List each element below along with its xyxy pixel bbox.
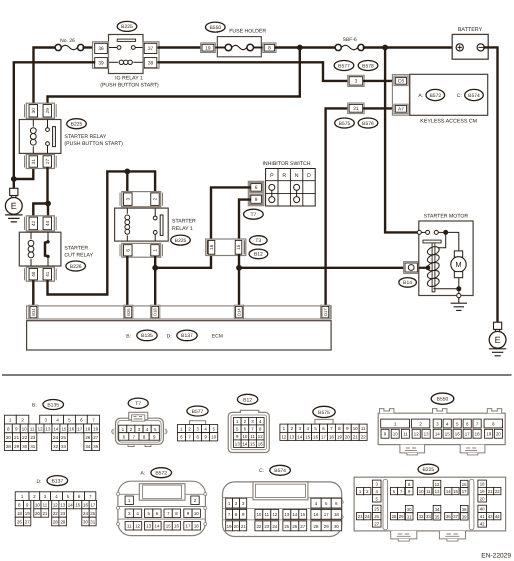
svg-text:B577: B577	[192, 409, 204, 415]
svg-text:33: 33	[61, 444, 66, 449]
wire fuse No.26 feed to starter relay pin 30	[34, 48, 56, 104]
svg-text:21: 21	[42, 511, 47, 516]
wire SBF-6 junction to starter relay pin 29	[48, 48, 300, 104]
svg-text:B225: B225	[121, 24, 133, 30]
svg-text:EN-22029: EN-22029	[481, 553, 511, 560]
inhibitor switch N contacts	[294, 184, 300, 202]
connector label B578	[358, 61, 378, 71]
pin 16	[208, 240, 215, 254]
relay U-IG1 IG RELAY 1 body	[109, 35, 144, 74]
svg-text:28: 28	[314, 524, 319, 529]
svg-text:13: 13	[284, 512, 289, 517]
svg-text:12: 12	[258, 434, 263, 439]
svg-text:10: 10	[22, 426, 27, 431]
starter cut relay bottom connector pins 40/41	[25, 267, 57, 281]
svg-text:19: 19	[205, 45, 211, 51]
svg-text:21: 21	[353, 434, 358, 439]
svg-text:41: 41	[45, 271, 50, 277]
svg-text:B12: B12	[254, 252, 263, 258]
pin C6 (keyless)	[394, 76, 408, 85]
svg-text:B14: B14	[403, 280, 412, 286]
svg-text:28: 28	[6, 444, 11, 449]
svg-text:30: 30	[31, 108, 36, 114]
IG relay left connector pins 36/39	[93, 42, 109, 68]
svg-text:29: 29	[45, 108, 50, 114]
svg-text:10: 10	[256, 512, 261, 517]
svg-text:27: 27	[25, 519, 30, 524]
junction ground wire / starter relay pin 31	[11, 176, 17, 182]
svg-text:T7: T7	[135, 401, 141, 407]
connector label B14	[399, 278, 417, 288]
wire keyless A7 to connector pin 21	[364, 107, 394, 109]
wire junction to ECM D14	[238, 268, 240, 306]
svg-text:6: 6	[125, 249, 130, 252]
fuse (fuse holder)	[225, 44, 253, 51]
svg-text:18: 18	[475, 432, 480, 437]
svg-text:11: 11	[250, 434, 255, 439]
svg-text:12: 12	[135, 524, 140, 529]
inhibitor switch table	[266, 169, 316, 207]
svg-text:STARTER RELAY: STARTER RELAY	[64, 134, 106, 140]
svg-text:40: 40	[31, 271, 36, 277]
starter relay 1 contact points	[153, 215, 163, 235]
connector label B225 (starter relay 1)	[171, 235, 191, 245]
wire junction to connector B14	[239, 267, 403, 269]
svg-text:8: 8	[268, 45, 271, 51]
svg-text:24: 24	[272, 524, 277, 529]
svg-text:B:: B:	[32, 402, 37, 408]
svg-text:38: 38	[148, 61, 154, 67]
svg-text:B550: B550	[209, 25, 221, 31]
svg-text:IG RELAY 1: IG RELAY 1	[115, 76, 143, 82]
wire junction to connector pin 16	[155, 256, 211, 268]
wire junction to cut relay pin 42	[33, 204, 48, 216]
starter relay contact points	[46, 127, 56, 147]
starter cut relay top connector pins 42/44	[25, 216, 57, 231]
connector B14	[404, 262, 419, 274]
svg-text:12: 12	[414, 432, 419, 437]
svg-text:35: 35	[93, 444, 98, 449]
wire cut relay pin 41 to starter relay 1 pin 2	[48, 171, 156, 294]
svg-text:20: 20	[6, 435, 11, 440]
svg-text:B572: B572	[429, 93, 441, 99]
pin 6 (T7)	[250, 182, 263, 192]
starter motor terminals	[417, 230, 445, 234]
starter motor solenoid coil	[426, 245, 440, 288]
svg-text:10: 10	[211, 435, 216, 440]
inhibitor connector shell pins 6/9	[248, 181, 263, 205]
svg-text:STARTER: STARTER	[64, 245, 88, 251]
junction pin15 / ECM D14 / starter motor	[236, 265, 242, 271]
svg-text:16: 16	[69, 426, 74, 431]
svg-text:27: 27	[93, 435, 98, 440]
svg-text:24: 24	[53, 435, 58, 440]
junction relay 1 coil feed	[124, 169, 130, 175]
svg-text:16: 16	[462, 482, 467, 487]
wire inhibitor pin 6 to connector pin 16	[211, 187, 250, 239]
svg-text:19: 19	[227, 524, 232, 529]
svg-text:13: 13	[46, 426, 51, 431]
svg-text:39: 39	[462, 514, 467, 519]
ECM pin B26	[124, 305, 133, 319]
svg-text:D:: D:	[37, 479, 42, 485]
connector label B12 (bottom)	[237, 394, 257, 404]
svg-text:B137: B137	[51, 479, 63, 485]
svg-text:22: 22	[256, 524, 261, 529]
connector B12 pin grid	[233, 418, 264, 448]
svg-text:40: 40	[480, 507, 485, 512]
svg-text:35: 35	[435, 514, 440, 519]
svg-text:27: 27	[300, 524, 305, 529]
svg-text:25: 25	[374, 507, 379, 512]
starter relay contact	[47, 120, 49, 128]
svg-text:10: 10	[393, 432, 398, 437]
connector label B550 (bottom)	[431, 393, 454, 404]
svg-text:E: E	[495, 335, 501, 345]
svg-text:16: 16	[258, 442, 263, 447]
svg-text:30: 30	[83, 519, 88, 524]
svg-text:15: 15	[166, 524, 171, 529]
starter relay 1 contact	[154, 208, 156, 216]
separator line	[2, 374, 512, 376]
svg-text:14: 14	[446, 489, 451, 494]
svg-text:12: 12	[53, 503, 58, 508]
IG relay right connector pins 37/38	[143, 42, 159, 68]
svg-text:28: 28	[53, 519, 58, 524]
svg-text:18: 18	[334, 512, 339, 517]
svg-text:20: 20	[35, 511, 40, 516]
svg-text:37: 37	[148, 46, 154, 52]
svg-text:BATTERY: BATTERY	[458, 27, 483, 33]
svg-text:2: 2	[153, 197, 158, 200]
svg-text:31: 31	[407, 514, 412, 519]
svg-text:21: 21	[488, 489, 493, 494]
svg-text:6: 6	[255, 185, 258, 191]
connector label T3	[249, 236, 267, 245]
connector B225 pin grid	[357, 480, 501, 527]
svg-text:B225: B225	[175, 238, 187, 244]
pin 9 (T7)	[250, 194, 263, 205]
connector label B225 (IG relay)	[117, 21, 137, 31]
svg-text:D14: D14	[236, 308, 241, 316]
keyless access CM connector strip C6/A7	[392, 75, 409, 116]
connector label B575	[335, 118, 355, 128]
svg-text:43: 43	[488, 514, 493, 519]
svg-text:25: 25	[90, 511, 95, 516]
svg-text:16: 16	[314, 512, 319, 517]
connector B137 pin grid	[15, 479, 96, 526]
starter relay bottom connector pins 31/27	[25, 155, 57, 169]
svg-text:B135: B135	[141, 333, 153, 339]
svg-text:36: 36	[98, 46, 104, 52]
connector label B12	[249, 249, 268, 259]
junction motor / solenoid ground	[456, 286, 461, 291]
svg-text:11: 11	[426, 489, 431, 494]
connector label B550	[206, 22, 226, 32]
svg-text:(PUSH BUTTON START): (PUSH BUTTON START)	[64, 141, 123, 147]
svg-text:CUT RELAY: CUT RELAY	[64, 253, 93, 259]
connector B225 body	[354, 477, 506, 541]
svg-text:B576: B576	[362, 121, 374, 127]
pin 15	[235, 240, 242, 254]
junction starter motor feed	[443, 230, 448, 235]
connector label B575 (bottom)	[313, 406, 335, 417]
svg-text:20: 20	[345, 434, 350, 439]
ECM box	[27, 321, 332, 350]
starter cut relay contact (closed)	[45, 232, 50, 266]
svg-text:B578: B578	[362, 63, 374, 69]
svg-text:18: 18	[17, 511, 22, 516]
svg-text:30: 30	[22, 444, 27, 449]
svg-text:RELAY 1: RELAY 1	[172, 226, 193, 232]
svg-text:34: 34	[85, 444, 90, 449]
svg-text:P: P	[270, 173, 274, 179]
junction relay1 pin1 / connector 16	[152, 265, 158, 271]
fuse holder B550 box	[217, 37, 261, 57]
starter cut relay coil	[28, 232, 34, 266]
connector B572 body	[117, 481, 207, 535]
starter relay 1 coil	[125, 208, 130, 241]
connector B550 body	[378, 409, 505, 455]
svg-text:15: 15	[61, 426, 66, 431]
wire IG relay pin 37 to fuse holder pin 19	[159, 46, 201, 48]
svg-text:15: 15	[445, 432, 450, 437]
starter motor box	[419, 221, 473, 296]
svg-text:23: 23	[358, 514, 363, 519]
svg-text:14: 14	[292, 512, 297, 517]
svg-text:10: 10	[194, 511, 199, 516]
svg-text:D18: D18	[153, 308, 158, 316]
fuse SBF-6	[335, 44, 364, 50]
ECM pin D14	[234, 305, 243, 319]
svg-text:17: 17	[462, 489, 467, 494]
svg-text:10: 10	[35, 503, 40, 508]
svg-text:26: 26	[85, 435, 90, 440]
svg-text:31: 31	[90, 519, 95, 524]
svg-text:21: 21	[241, 524, 246, 529]
svg-text:No. 26: No. 26	[60, 38, 75, 44]
connector B575 pin grid	[280, 424, 367, 440]
svg-text:42: 42	[480, 521, 485, 526]
svg-text:3: 3	[355, 79, 358, 85]
connector T3/B12 shell	[206, 239, 246, 256]
wire SBF-6 to battery +	[364, 46, 456, 48]
connector B574 body	[223, 482, 344, 537]
svg-text:21: 21	[353, 106, 359, 112]
wire connector pin 21 to ECM D17	[326, 108, 348, 306]
svg-text:29: 29	[14, 444, 19, 449]
svg-text:15: 15	[75, 503, 80, 508]
IG relay coil	[109, 60, 144, 64]
svg-text:34: 34	[435, 507, 440, 512]
svg-text:19: 19	[93, 426, 98, 431]
svg-text:14: 14	[68, 503, 73, 508]
svg-text:15: 15	[236, 244, 241, 250]
svg-text:N: N	[295, 173, 299, 179]
svg-text:D17: D17	[323, 308, 328, 316]
junction B14 wire / solenoid coil	[426, 265, 431, 270]
connector label B226	[66, 261, 86, 271]
wire IG relay pin 39 to ground E	[14, 62, 94, 188]
svg-text:19: 19	[337, 434, 342, 439]
svg-text:17: 17	[324, 512, 329, 517]
connector label B137 (bottom)	[47, 476, 68, 486]
connector B575 body	[315, 419, 333, 424]
svg-text:11: 11	[265, 512, 270, 517]
svg-text:18: 18	[85, 426, 90, 431]
svg-text:26: 26	[17, 519, 22, 524]
svg-text:STARTER MOTOR: STARTER MOTOR	[424, 214, 469, 220]
motor M	[451, 251, 466, 278]
svg-text:37: 37	[453, 514, 458, 519]
svg-text:15: 15	[250, 442, 255, 447]
svg-text:31: 31	[30, 444, 35, 449]
svg-text:B225: B225	[422, 467, 434, 473]
fuse holder internal lead	[215, 47, 225, 49]
wire cut relay pin 40 to ECM B34	[32, 281, 34, 306]
ECM pin D18	[151, 305, 160, 319]
svg-text:30: 30	[334, 524, 339, 529]
svg-text:C:: C:	[259, 468, 264, 474]
svg-text:A:: A:	[141, 471, 146, 477]
svg-text:11: 11	[361, 426, 366, 431]
svg-text:25: 25	[61, 435, 66, 440]
svg-text:16: 16	[209, 244, 214, 250]
pin 8 (B550)	[263, 43, 276, 53]
wire fuse No.26 to IG relay pin 36	[84, 46, 94, 48]
svg-text:14: 14	[53, 426, 58, 431]
svg-text:KEYLESS ACCESS CM: KEYLESS ACCESS CM	[420, 118, 477, 124]
pin 21 (B575/B576)	[348, 103, 364, 114]
wire pin 15 down to junction	[238, 256, 240, 268]
svg-text:B575: B575	[318, 410, 330, 416]
connector B577 pin grid	[177, 425, 217, 441]
inhibitor switch P contacts	[269, 184, 275, 202]
relay starter relay 1 body	[115, 208, 169, 241]
svg-text:B137: B137	[181, 333, 193, 339]
ECM connector rail	[27, 306, 332, 319]
svg-text:29: 29	[60, 519, 65, 524]
svg-text:22: 22	[22, 435, 27, 440]
svg-text:12: 12	[435, 482, 440, 487]
svg-text:21: 21	[14, 435, 19, 440]
connector B12 body	[228, 410, 269, 452]
wire starter relay pin 27 down	[46, 169, 48, 204]
svg-text:B550: B550	[437, 397, 449, 403]
svg-text:B574: B574	[468, 93, 480, 99]
svg-text:33: 33	[426, 514, 431, 519]
wire battery - to ground E	[484, 47, 497, 322]
wire SBF-6 junction to starter motor terminal	[385, 48, 417, 233]
svg-text:16: 16	[83, 503, 88, 508]
connector B135 pin grid	[4, 402, 99, 450]
svg-text:A:: A:	[418, 93, 423, 99]
svg-text:32: 32	[53, 444, 58, 449]
svg-text:19: 19	[486, 432, 491, 437]
connector label T7	[244, 209, 264, 219]
connector B574 pin grid	[226, 498, 342, 531]
svg-text:R: R	[282, 173, 286, 179]
junction main feed / starter motor branch	[382, 45, 388, 51]
svg-text:A7: A7	[398, 107, 404, 113]
ECM pin D17	[321, 305, 330, 319]
starter motor solenoid plunger	[423, 240, 441, 292]
svg-text:12: 12	[272, 512, 277, 517]
connector label B577	[334, 61, 354, 71]
junction main feed / IG relay branch	[297, 45, 303, 51]
svg-text:B:: B:	[126, 333, 131, 339]
svg-text:10: 10	[353, 426, 358, 431]
connector label B225 (starter relay)	[67, 119, 87, 129]
svg-text:E: E	[11, 201, 17, 211]
svg-text:B12: B12	[243, 397, 252, 403]
wire starter relay 1 pin 6 to ECM B26	[126, 257, 128, 306]
wire IG relay pin 38 to connector pin 3	[159, 62, 348, 81]
connector label T7 (bottom)	[128, 398, 148, 408]
svg-text:30: 30	[407, 507, 412, 512]
svg-text:17: 17	[77, 426, 82, 431]
svg-text:B226: B226	[70, 264, 82, 270]
svg-text:44: 44	[45, 220, 50, 226]
fuse No. 26	[55, 44, 84, 50]
svg-text:15: 15	[305, 434, 310, 439]
pin A7 (keyless)	[394, 104, 408, 113]
svg-text:STARTER: STARTER	[172, 219, 196, 225]
svg-text:29: 29	[399, 514, 404, 519]
relay starter relay body	[19, 120, 61, 154]
svg-text:D:: D:	[167, 333, 172, 339]
svg-text:B574: B574	[274, 468, 286, 474]
svg-text:T7: T7	[250, 212, 256, 218]
svg-text:26: 26	[374, 514, 379, 519]
svg-text:24: 24	[365, 514, 370, 519]
svg-text:11: 11	[43, 503, 48, 508]
svg-text:18: 18	[480, 482, 485, 487]
svg-text:C:: C:	[457, 93, 462, 99]
ground E (left)	[5, 188, 22, 222]
starter relay 1 bottom connector pins 6/1	[120, 243, 163, 257]
starter motor internal wiring	[434, 232, 459, 294]
svg-text:19: 19	[25, 511, 30, 516]
svg-text:42: 42	[31, 220, 36, 226]
svg-text:ECM: ECM	[212, 333, 223, 339]
starter motor ground terminal	[457, 293, 461, 297]
connector label B577 (bottom)	[187, 406, 208, 416]
svg-text:14: 14	[155, 524, 160, 529]
svg-text:27: 27	[374, 521, 379, 526]
svg-text:13: 13	[289, 434, 294, 439]
connector label B137 (ECM)	[177, 330, 197, 341]
svg-text:T3: T3	[255, 238, 261, 244]
svg-text:16: 16	[174, 524, 179, 529]
svg-text:B34: B34	[31, 308, 36, 316]
svg-text:B572: B572	[155, 471, 167, 477]
svg-text:3: 3	[125, 197, 130, 200]
svg-text:28: 28	[392, 514, 397, 519]
svg-text:20: 20	[496, 432, 501, 437]
svg-text:24: 24	[83, 511, 88, 516]
svg-text:FUSE HOLDER: FUSE HOLDER	[229, 28, 266, 34]
svg-text:20: 20	[234, 524, 239, 529]
svg-text:B225: B225	[71, 122, 83, 128]
svg-text:29: 29	[324, 524, 329, 529]
IG relay contact points	[109, 46, 144, 50]
B14 contact circle	[408, 265, 414, 271]
keyless access CM box	[410, 74, 488, 115]
wire starter relay pin 31 to ground junction	[14, 169, 34, 180]
starter relay coil	[30, 120, 36, 154]
connector B550 pin grid	[381, 419, 503, 438]
